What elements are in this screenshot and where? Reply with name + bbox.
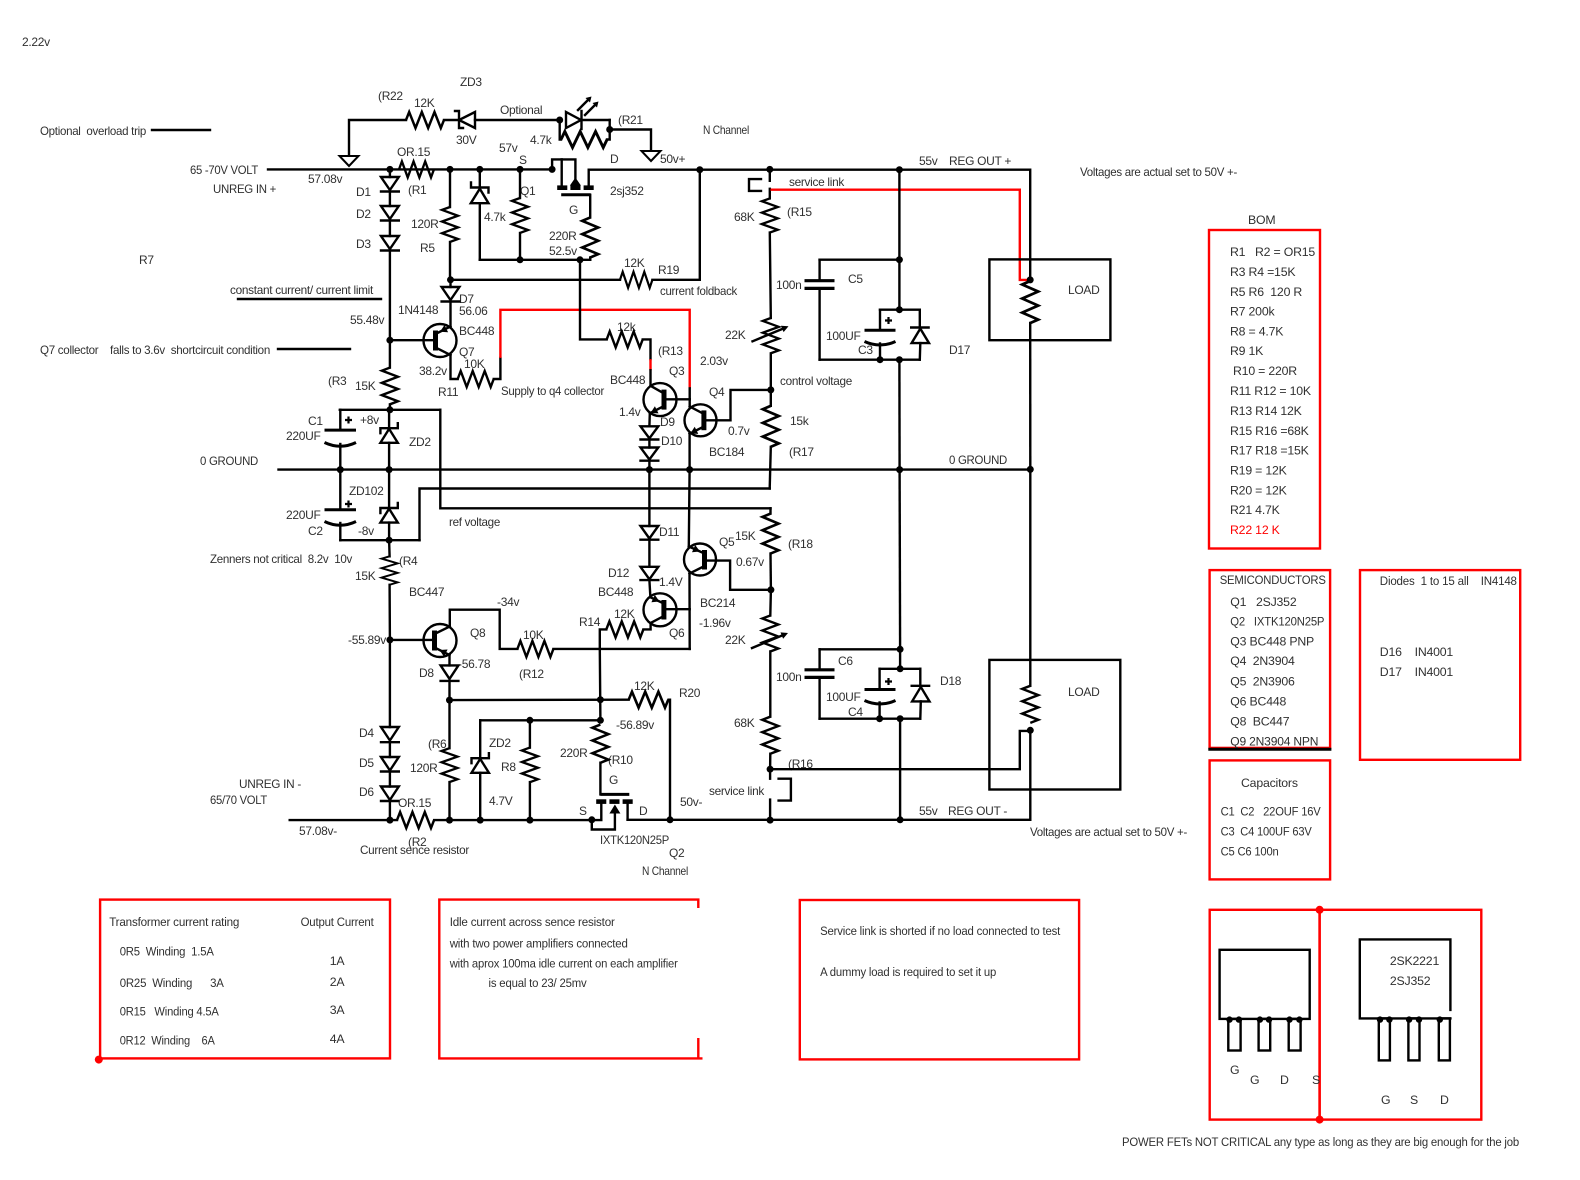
svg-text:R13 R14 12K: R13 R14 12K	[1230, 404, 1303, 418]
svg-text:Idle current across sence resi: Idle current across sence resistor	[450, 915, 615, 929]
svg-text:2SK2221: 2SK2221	[1390, 954, 1440, 968]
svg-text:Q9 2N3904 NPN: Q9 2N3904 NPN	[1230, 735, 1318, 749]
wire Q4 collector stub	[689, 388, 691, 399]
svg-text:R9 1K: R9 1K	[1230, 344, 1264, 358]
svg-text:D17 IN4001: D17 IN4001	[1380, 665, 1454, 679]
svg-text:(R12: (R12	[519, 667, 544, 681]
transistor Q7 BC448	[424, 324, 457, 357]
svg-text:15k: 15k	[790, 414, 810, 428]
svg-text:65/70 VOLT: 65/70 VOLT	[210, 793, 268, 807]
svg-text:S: S	[579, 804, 587, 818]
svg-text:Zenners not critical 8.2v 10: Zenners not critical 8.2v 10v	[210, 552, 352, 566]
node bottom rail dots	[386, 817, 393, 824]
Transformer box	[100, 900, 390, 1059]
wire R20 row	[450, 699, 629, 702]
svg-text:Q4 2N3904: Q4 2N3904	[1230, 654, 1295, 668]
svg-text:Voltages are actual set to 50V: Voltages are actual set to 50V +-	[1030, 825, 1187, 839]
svg-text:220UF: 220UF	[286, 508, 321, 522]
Diodes box	[1360, 570, 1520, 760]
Capacitors box	[1210, 760, 1331, 879]
svg-text:4.7V: 4.7V	[489, 794, 513, 808]
wire R14 leg down	[599, 649, 602, 720]
svg-text:100UF: 100UF	[826, 690, 861, 704]
node service link rail dot	[766, 166, 773, 173]
svg-text:R20: R20	[679, 686, 701, 700]
svg-text:Output Current: Output Current	[301, 915, 375, 929]
node load bottom dot	[1027, 727, 1034, 734]
FET package box right	[1320, 910, 1482, 1120]
svg-text:Q6 BC448: Q6 BC448	[1230, 695, 1286, 709]
wire red supply to Q4	[500, 310, 689, 389]
svg-text:N Channel: N Channel	[642, 864, 688, 878]
node R16 bottom dot	[767, 766, 774, 773]
wire C3 box	[898, 260, 900, 310]
transistor Q1 2sj352 P-MOSFET	[549, 166, 556, 173]
svg-text:D4: D4	[359, 726, 374, 740]
node rail C5 dot	[896, 166, 903, 173]
wire rail right from Q1 drain	[589, 170, 1030, 280]
wire overload trip tick	[152, 129, 210, 131]
wire UNREG IN + rail left	[268, 168, 552, 170]
svg-text:55v: 55v	[919, 804, 938, 818]
svg-text:BC184: BC184	[709, 445, 745, 459]
svg-text:Q7 collector falls to 3.6v: Q7 collector falls to 3.6v shortcircuit …	[40, 343, 270, 357]
svg-text:Q2 IXTK120N25P: Q2 IXTK120N25P	[1230, 615, 1324, 629]
LOAD box lower	[989, 660, 1120, 790]
svg-text:R8 = 4.7K: R8 = 4.7K	[1230, 325, 1284, 339]
svg-text:S: S	[519, 153, 527, 167]
svg-text:10K: 10K	[464, 357, 485, 371]
SECTION: left column	[210, 169, 771, 820]
svg-text:50v-: 50v-	[680, 795, 702, 809]
svg-text:57v: 57v	[499, 141, 518, 155]
wire C4 box top	[899, 649, 901, 669]
svg-text:service link: service link	[709, 784, 765, 798]
node LED anode dot	[556, 117, 563, 124]
wire R19 current foldback	[451, 279, 621, 281]
svg-text:D18: D18	[940, 674, 962, 688]
svg-text:52.5v: 52.5v	[549, 244, 577, 258]
svg-text:-56.78: -56.78	[458, 657, 491, 671]
svg-text:BC447: BC447	[409, 585, 445, 599]
svg-text:4.7k: 4.7k	[484, 210, 507, 224]
svg-text:D5: D5	[359, 756, 374, 770]
svg-text:-1.96v: -1.96v	[699, 616, 731, 630]
svg-text:G: G	[609, 773, 618, 787]
node Q7 base dot	[386, 337, 393, 344]
wire C1 bus	[340, 409, 441, 411]
svg-text:C2: C2	[308, 524, 323, 538]
svg-text:service link: service link	[789, 175, 845, 189]
wire R20 right leg	[669, 700, 670, 820]
svg-text:0.67v: 0.67v	[736, 555, 764, 569]
LOAD box upper	[989, 259, 1110, 340]
svg-text:220R: 220R	[549, 229, 577, 243]
package pins right	[1379, 1018, 1390, 1060]
svg-text:R5 R6 120 R: R5 R6 120 R	[1230, 285, 1302, 299]
svg-text:-34v: -34v	[497, 595, 519, 609]
node Q2 source dot	[588, 816, 595, 823]
svg-text:R3 R4 =15K: R3 R4 =15K	[1230, 265, 1296, 279]
svg-text:Q2: Q2	[669, 846, 685, 860]
node C6 bus dot	[897, 646, 904, 653]
node ground dots	[337, 466, 344, 473]
node load top dot	[1027, 276, 1034, 283]
node control voltage dot	[767, 386, 774, 393]
wire LED cathode	[582, 119, 610, 121]
node rail D1 dot	[386, 166, 393, 173]
svg-text:(R17: (R17	[789, 445, 814, 459]
svg-text:R7 200k: R7 200k	[1230, 305, 1275, 319]
svg-text:220R: 220R	[560, 746, 588, 760]
svg-text:(R18: (R18	[788, 537, 813, 551]
svg-text:R21 4.7K: R21 4.7K	[1230, 503, 1281, 517]
svg-text:D17: D17	[949, 343, 971, 357]
svg-text:BC448: BC448	[459, 324, 495, 338]
svg-text:Q6: Q6	[669, 626, 685, 640]
svg-text:C1: C1	[308, 414, 323, 428]
svg-text:C4: C4	[848, 705, 863, 719]
svg-text:ZD102: ZD102	[349, 484, 384, 498]
wire bottom rail right	[628, 819, 1031, 821]
wire Q8 collector to R12	[450, 610, 518, 649]
svg-text:S: S	[1312, 1073, 1320, 1087]
svg-text:BC214: BC214	[700, 596, 736, 610]
svg-text:R19: R19	[658, 263, 680, 277]
package body right	[1360, 939, 1451, 1018]
package body left	[1220, 950, 1310, 1019]
svg-text:12K: 12K	[414, 96, 435, 110]
Service link note box	[800, 900, 1079, 1059]
svg-text:Q4: Q4	[709, 385, 725, 399]
SECTION: right upper	[734, 154, 1237, 470]
wire C5 bottom bus	[820, 359, 920, 361]
svg-text:0 GROUND: 0 GROUND	[949, 453, 1008, 467]
svg-text:ZD2: ZD2	[489, 736, 511, 750]
svg-text:Transformer current rating: Transformer current rating	[109, 915, 239, 929]
svg-text:57.08v: 57.08v	[308, 172, 343, 186]
svg-text:(R4: (R4	[399, 554, 418, 568]
svg-text:22K: 22K	[725, 633, 746, 647]
svg-text:56.06: 56.06	[459, 304, 488, 318]
svg-text:0R15 Winding 4.5A: 0R15 Winding 4.5A	[120, 1005, 220, 1019]
wire Q7 collector to R11	[451, 355, 458, 379]
svg-text:120R: 120R	[411, 217, 439, 231]
svg-text:N Channel: N Channel	[703, 123, 749, 137]
svg-text:2sj352: 2sj352	[610, 184, 644, 198]
svg-text:68K: 68K	[734, 716, 755, 730]
wire down to C5 bus	[898, 170, 900, 260]
svg-text:Q5: Q5	[719, 535, 735, 549]
svg-text:ZD3: ZD3	[460, 75, 482, 89]
svg-text:15K: 15K	[735, 529, 756, 543]
svg-text:D12: D12	[608, 566, 630, 580]
node ZD102 bottom dot	[386, 537, 393, 544]
wire R13 feed	[580, 260, 607, 340]
svg-text:4.7k: 4.7k	[530, 133, 553, 147]
SECTION: ground + mid	[200, 453, 1034, 473]
svg-text:Q3 BC448 PNP: Q3 BC448 PNP	[1230, 635, 1314, 649]
svg-text:0.7v: 0.7v	[728, 424, 750, 438]
svg-text:D2: D2	[356, 207, 371, 221]
svg-text:S: S	[1410, 1093, 1418, 1107]
svg-text:15K: 15K	[355, 379, 376, 393]
svg-text:100n: 100n	[776, 670, 802, 684]
svg-text:(R1: (R1	[408, 183, 427, 197]
svg-text:12K: 12K	[614, 607, 635, 621]
svg-text:UNREG IN -: UNREG IN -	[239, 777, 301, 791]
arrow 50v+	[642, 151, 661, 161]
wire Q5 base-emitter path to R18 bottom	[705, 561, 771, 590]
svg-text:with aprox 100ma idle current: with aprox 100ma idle current on each am…	[449, 957, 678, 971]
svg-text:1.4v: 1.4v	[619, 405, 641, 419]
svg-text:(R13: (R13	[658, 344, 683, 358]
svg-text:REG OUT -: REG OUT -	[948, 804, 1007, 818]
svg-text:Service link is shorted if no: Service link is shorted if no load conne…	[820, 924, 1061, 938]
wire R12 to Q6 base node	[553, 648, 689, 650]
svg-text:D11: D11	[659, 525, 680, 539]
svg-text:is equal to 23/ 25mv: is equal to 23/ 25mv	[489, 976, 588, 990]
svg-text:UNREG IN +: UNREG IN +	[213, 182, 276, 196]
svg-text:+8v: +8v	[360, 413, 379, 427]
svg-text:R1 R2 = OR15: R1 R2 = OR15	[1230, 245, 1315, 259]
svg-text:0R5 Winding 1.5A: 0R5 Winding 1.5A	[120, 945, 215, 959]
svg-text:control voltage: control voltage	[780, 374, 853, 388]
package pins left	[1228, 1019, 1240, 1051]
svg-text:ZD2: ZD2	[409, 435, 431, 449]
node R18 bottom dot	[767, 586, 774, 593]
wire D3 to Q7 base node	[389, 251, 391, 341]
wire R13 to Q3 collector with red splice	[643, 339, 651, 359]
wire ref voltage	[420, 489, 770, 541]
wire C5 top bus	[820, 259, 900, 261]
svg-text:C3 C4 100UF 63V: C3 C4 100UF 63V	[1221, 825, 1313, 839]
node C1 bus dot	[386, 406, 393, 413]
svg-text:D16 IN4001: D16 IN4001	[1380, 645, 1454, 659]
svg-text:R17 R18 =15K: R17 R18 =15K	[1230, 444, 1310, 458]
svg-text:current foldback: current foldback	[660, 284, 738, 298]
wire base	[390, 339, 436, 341]
arrow trip to rail	[340, 156, 359, 166]
svg-text:R19 = 12K: R19 = 12K	[1230, 464, 1288, 478]
zener ZD102	[388, 470, 390, 508]
wire Q8 base	[390, 639, 436, 641]
wire R16 node to load	[770, 731, 1030, 769]
wire tap to 50v+ arrow	[610, 130, 651, 151]
svg-text:57.08v-: 57.08v-	[299, 824, 337, 838]
node D7 top dot	[447, 276, 454, 283]
svg-text:22K: 22K	[725, 328, 746, 342]
wire ground to load lower	[1029, 469, 1031, 685]
svg-text:D: D	[610, 152, 619, 166]
resistor load upper	[1022, 281, 1038, 323]
svg-text:2SJ352: 2SJ352	[1390, 974, 1431, 988]
svg-text:(R3: (R3	[328, 374, 347, 388]
svg-text:50v+: 50v+	[660, 152, 685, 166]
node R19 rail dot	[696, 166, 703, 173]
SECTION: top-left texts	[22, 35, 385, 357]
node R20 row dot	[597, 696, 604, 703]
svg-text:R22 12 K: R22 12 K	[1230, 523, 1281, 537]
diode D7	[449, 280, 451, 287]
svg-text:100UF: 100UF	[826, 329, 861, 343]
svg-text:A dummy load is required to se: A dummy load is required to set it up	[820, 965, 996, 979]
svg-text:C6: C6	[838, 654, 853, 668]
svg-text:(R15: (R15	[787, 205, 812, 219]
wire red service to load	[771, 190, 1028, 280]
svg-text:R8: R8	[501, 760, 516, 774]
svg-text:R7: R7	[139, 253, 154, 267]
svg-text:Q1: Q1	[520, 184, 536, 198]
wire C6 top bus	[820, 648, 901, 650]
svg-text:G: G	[1230, 1063, 1239, 1077]
svg-text:C1 C2 22OUF 16V: C1 C2 22OUF 16V	[1221, 805, 1322, 819]
wire Q4 base to control voltage	[704, 390, 771, 420]
svg-text:100n: 100n	[776, 278, 802, 292]
svg-text:(R22: (R22	[378, 89, 403, 103]
wire Q5 emitter to ground	[688, 470, 691, 547]
SECTION: right lower	[770, 469, 1120, 819]
node C5 bus dot	[896, 256, 903, 263]
SECTION: center lower	[450, 470, 814, 878]
svg-text:2A: 2A	[330, 975, 346, 989]
svg-text:(R10: (R10	[608, 753, 633, 767]
svg-text:-56.89v: -56.89v	[616, 718, 654, 732]
zener ZD1	[479, 169, 481, 187]
svg-text:(R21: (R21	[618, 113, 643, 127]
SECTION: top rail and overload trip	[190, 75, 1030, 280]
wire bus to bottom rail	[899, 719, 901, 820]
svg-text:D6: D6	[359, 785, 374, 799]
svg-text:Diodes 1 to 15 all IN4148: Diodes 1 to 15 all IN4148	[1380, 574, 1517, 588]
resistor load lower	[1022, 686, 1038, 723]
svg-text:LOAD: LOAD	[1068, 283, 1100, 297]
svg-text:-8v: -8v	[358, 524, 374, 538]
svg-text:G: G	[569, 203, 578, 217]
svg-text:G: G	[1381, 1093, 1390, 1107]
svg-text:0R25 Winding 3A: 0R25 Winding 3A	[120, 976, 225, 990]
wire bottom rail left	[290, 819, 397, 821]
SECTION: info boxes	[95, 900, 1520, 1149]
wire lower gate bus	[480, 719, 600, 721]
svg-text:BOM: BOM	[1248, 213, 1275, 227]
svg-text:R10 = 220R: R10 = 220R	[1233, 364, 1297, 378]
SECTION: bottom rail	[210, 777, 1187, 857]
node rail R9 dot	[517, 166, 524, 173]
svg-text:Voltages are actual set to 50V: Voltages are actual set to 50V +-	[1080, 165, 1237, 179]
svg-text:0R12 Winding 6A: 0R12 Winding 6A	[120, 1034, 216, 1048]
svg-text:4A: 4A	[330, 1032, 346, 1046]
svg-text:POWER FETs NOT CRITICAL any ty: POWER FETs NOT CRITICAL any type as long…	[1122, 1135, 1519, 1149]
wire ZD3 to LED	[475, 119, 560, 121]
node R21 tap dot	[606, 126, 613, 133]
SECTION: center upper	[451, 166, 853, 488]
svg-text:D1: D1	[356, 185, 371, 199]
node rail R5 dot	[447, 166, 454, 173]
svg-text:0 GROUND: 0 GROUND	[200, 454, 259, 468]
svg-text:R15 R16 =68K: R15 R16 =68K	[1230, 424, 1310, 438]
svg-text:10K: 10K	[523, 628, 544, 642]
node bus dots	[517, 256, 524, 263]
svg-text:2.03v: 2.03v	[700, 354, 728, 368]
svg-text:IXTK120N25P: IXTK120N25P	[600, 833, 669, 847]
svg-text:LOAD: LOAD	[1068, 685, 1100, 699]
svg-text:65 -70V VOLT: 65 -70V VOLT	[190, 163, 259, 177]
svg-text:68K: 68K	[734, 210, 755, 224]
svg-text:D: D	[1280, 1073, 1289, 1087]
svg-text:C5: C5	[848, 272, 863, 286]
wire load bottom to rail	[1029, 730, 1031, 820]
svg-text:12K: 12K	[624, 256, 645, 270]
svg-text:D: D	[1440, 1093, 1449, 1107]
svg-text:BC448: BC448	[610, 373, 646, 387]
svg-text:D3: D3	[356, 237, 371, 251]
svg-text:SEMICONDUCTORS: SEMICONDUCTORS	[1220, 573, 1326, 587]
wire overload trip branch	[349, 120, 406, 155]
node Q8 base dot	[386, 636, 393, 643]
svg-text:D10: D10	[661, 434, 683, 448]
svg-text:38.2v: 38.2v	[419, 364, 447, 378]
svg-text:D: D	[639, 804, 648, 818]
svg-text:-55.89v: -55.89v	[348, 633, 386, 647]
LED optional	[566, 112, 581, 128]
FET package box left	[1210, 910, 1320, 1120]
svg-text:with two power amplifiers conn: with two power amplifiers connected	[449, 937, 628, 951]
node D8 bottom dot	[446, 697, 453, 704]
SECTION: BOM boxes	[1208, 213, 1520, 879]
svg-text:Optional overload trip: Optional overload trip	[40, 124, 147, 138]
svg-text:constant current/ current limi: constant current/ current limit	[230, 283, 374, 297]
svg-text:BC448: BC448	[598, 585, 634, 599]
svg-text:Q3: Q3	[669, 364, 685, 378]
svg-text:2.22v: 2.22v	[22, 35, 50, 49]
svg-text:REG OUT +: REG OUT +	[949, 154, 1011, 168]
wire underline	[238, 298, 381, 300]
svg-text:Q1 2SJ352: Q1 2SJ352	[1230, 595, 1297, 609]
svg-text:C5 C6 100n: C5 C6 100n	[1221, 844, 1279, 858]
wire C6 bottom bus	[820, 718, 921, 720]
svg-text:120R: 120R	[410, 761, 438, 775]
svg-text:Current sence resistor: Current sence resistor	[360, 843, 469, 857]
svg-text:R11: R11	[438, 385, 459, 399]
wire C2 bottom bus	[340, 539, 419, 541]
svg-text:OR.15: OR.15	[397, 145, 431, 159]
svg-text:Q8 BC447: Q8 BC447	[1230, 715, 1289, 729]
wire Q5 collector down	[688, 574, 691, 649]
svg-text:ref voltage: ref voltage	[449, 515, 501, 529]
wire right branch down	[440, 410, 770, 509]
svg-text:Supply to q4 collector: Supply to q4 collector	[501, 384, 604, 398]
svg-text:R5: R5	[420, 241, 435, 255]
svg-text:R14: R14	[579, 615, 601, 629]
svg-text:1A: 1A	[330, 954, 346, 968]
node rail zener dot	[476, 166, 483, 173]
svg-text:3A: 3A	[330, 1003, 346, 1017]
svg-text:1.4V: 1.4V	[659, 575, 683, 589]
wire ground rail	[279, 468, 1031, 470]
svg-text:220UF: 220UF	[286, 429, 321, 443]
svg-text:R20 = 12K: R20 = 12K	[1230, 484, 1288, 498]
wire tick	[278, 348, 350, 350]
svg-text:R11 R12 = 10K: R11 R12 = 10K	[1230, 384, 1312, 398]
svg-text:55.48v: 55.48v	[350, 313, 385, 327]
SEMICONDUCTORS box	[1210, 570, 1331, 748]
svg-text:G: G	[1250, 1073, 1259, 1087]
wire gate bus	[480, 259, 590, 261]
svg-text:15K: 15K	[355, 569, 376, 583]
svg-text:55v: 55v	[919, 154, 938, 168]
svg-text:Capacitors: Capacitors	[1241, 776, 1298, 790]
